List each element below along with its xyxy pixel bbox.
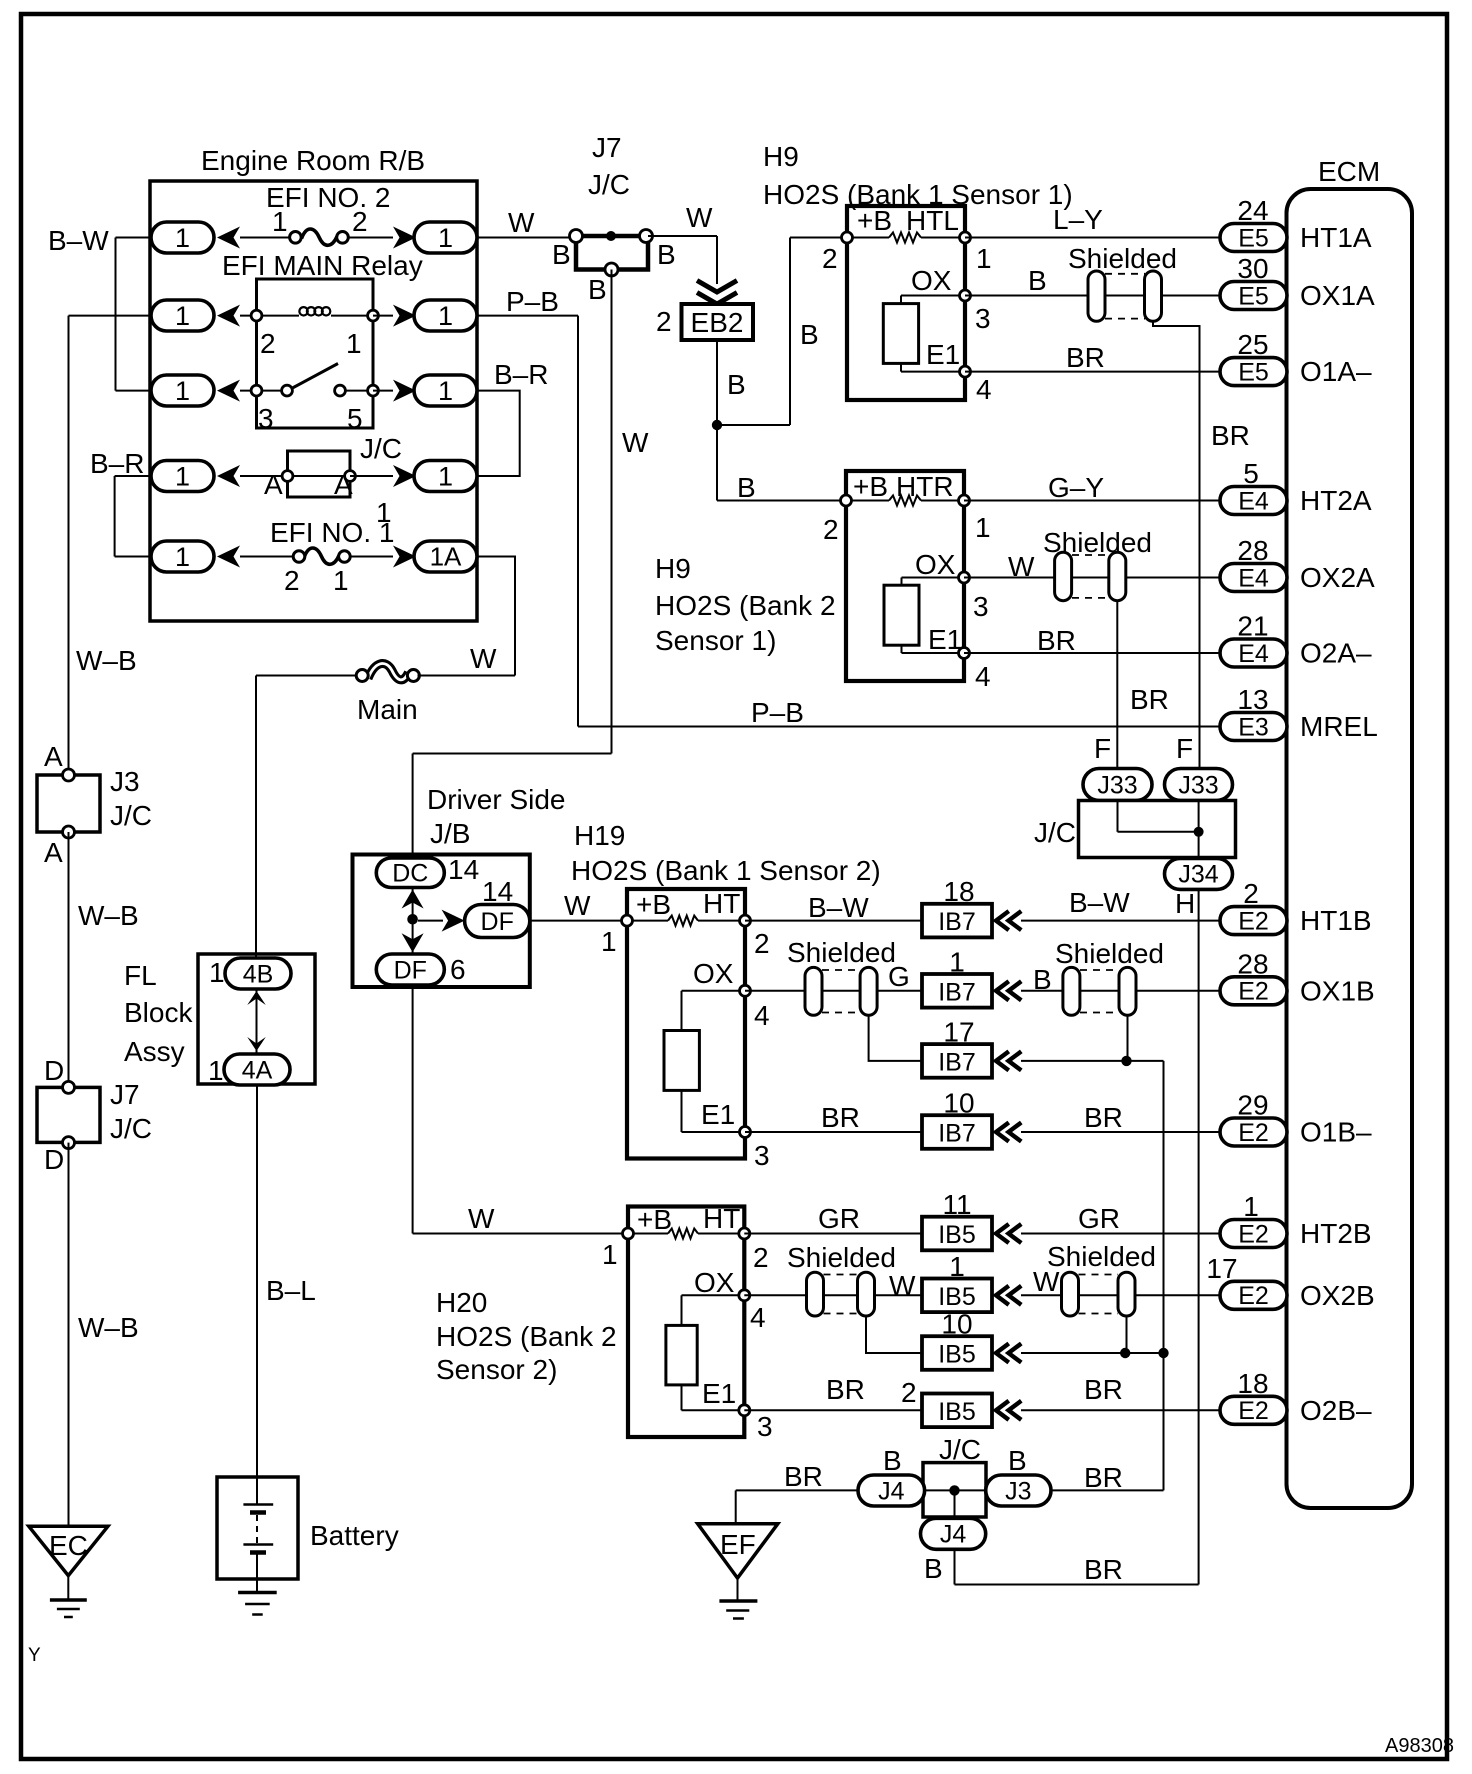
shield dashes OX2B right: [1079, 1274, 1119, 1276]
wire row3 to relay switch: [240, 390, 282, 392]
wire OX internal H20: [682, 1294, 745, 1296]
junction block Driver Side J/B box: [353, 855, 530, 988]
shield dashes H19 left: [822, 969, 860, 971]
svg-text:3: 3: [754, 1140, 770, 1171]
svg-text:18: 18: [1237, 1368, 1268, 1399]
arrow chevrons IB5 row 10: [996, 1345, 1007, 1361]
block FL Block Assy box: [198, 954, 315, 1084]
wire W to H20 pin1: [413, 1233, 628, 1235]
wire OX H20 to IB5: [744, 1294, 922, 1296]
svg-text:OX2B: OX2B: [1300, 1280, 1375, 1311]
svg-text:EFI MAIN Relay: EFI MAIN Relay: [222, 250, 423, 281]
svg-text:J7: J7: [110, 1079, 140, 1110]
arrow into pill row2 right: [393, 305, 416, 327]
heater resistor bank2s1: [889, 496, 921, 506]
svg-text:1: 1: [175, 301, 190, 331]
wire GR IB5 to ECM: [1021, 1233, 1220, 1235]
wire 1A to main link: [477, 557, 515, 676]
svg-text:BR: BR: [1084, 1374, 1123, 1405]
svg-text:4: 4: [750, 1302, 766, 1333]
junction dot J/B: [407, 914, 418, 925]
wire W DF to H19: [530, 920, 627, 922]
wire J33 right through to J34: [1198, 801, 1200, 858]
svg-text:Block: Block: [124, 997, 193, 1028]
wire B to H9 bank1 pin2: [790, 237, 847, 239]
wire row1 to right pill: [347, 237, 393, 239]
svg-text:MREL: MREL: [1300, 711, 1378, 742]
svg-text:OX: OX: [915, 549, 956, 580]
junction dot B net: [712, 420, 722, 430]
svg-text:1: 1: [601, 926, 617, 957]
svg-text:GR: GR: [818, 1203, 860, 1234]
wire inside J33 jc: [1117, 801, 1119, 832]
svg-text:Driver Side: Driver Side: [427, 784, 565, 815]
wire BR O1A to ECM: [965, 371, 1220, 373]
svg-text:10: 10: [943, 1088, 974, 1119]
connector pill E5 O1A– pin 25: [1220, 358, 1287, 386]
arrow into pill row5 right: [393, 546, 416, 568]
fuse EFI NO.2 element: [302, 229, 338, 245]
connector pill 1 row4 left: [151, 461, 214, 492]
connector pill E2 HT1B pin 2: [1220, 907, 1287, 935]
wire IB5 10 to vertical: [1021, 1352, 1164, 1354]
connector pill 1 row1 right: [414, 222, 477, 253]
svg-text:17: 17: [943, 1016, 974, 1047]
svg-text:1: 1: [438, 376, 453, 406]
svg-text:W–B: W–B: [78, 900, 139, 931]
wire row2 right to pill: [373, 315, 393, 317]
ground EF triangle: [698, 1524, 778, 1578]
junction connector J7 J/C box top: [576, 236, 648, 270]
svg-text:W: W: [564, 890, 591, 921]
connector pill J3 right: [986, 1475, 1051, 1506]
wire B-R link row3-row4: [477, 391, 520, 476]
pin 3 H19: [740, 1127, 751, 1138]
wire shield drain bank1s1: [1153, 321, 1200, 768]
svg-text:OX: OX: [911, 265, 952, 296]
wire between 4B 4A: [256, 989, 258, 1055]
svg-text:H19: H19: [574, 820, 625, 851]
arrow down in J/B: [402, 933, 424, 952]
svg-text:F: F: [1176, 733, 1193, 764]
shield capsule bank1s1 left: [1088, 271, 1105, 321]
svg-text:J33: J33: [1097, 771, 1137, 799]
wire row5 fuse segment: [240, 556, 294, 558]
connector EB2 box: [682, 304, 754, 340]
connector pill J4 bottom: [921, 1518, 986, 1549]
J7 top pin B left: [570, 230, 583, 243]
svg-text:1A: 1A: [430, 542, 462, 572]
arrow into pill row1 right: [393, 227, 416, 249]
svg-text:+B: +B: [853, 471, 888, 502]
wire battery feed vertical upper: [255, 676, 257, 959]
svg-text:IB7: IB7: [938, 908, 976, 936]
svg-text:J4: J4: [940, 1521, 967, 1549]
svg-text:Shielded: Shielded: [1068, 243, 1177, 274]
svg-text:O1A–: O1A–: [1300, 356, 1372, 387]
connector IB7 row 17: [922, 1044, 992, 1078]
svg-text:14: 14: [448, 854, 479, 885]
svg-text:1: 1: [175, 542, 190, 572]
connector IB7 row 10: [922, 1115, 992, 1149]
arrow chevrons IB7 row 10: [996, 1124, 1007, 1140]
sensor element H20: [666, 1325, 697, 1385]
pin 1 bank1s1: [960, 232, 971, 243]
battery plate long bottom: [243, 1543, 273, 1545]
battery plate short bottom: [250, 1550, 266, 1555]
wire W row1 to J7 J/C: [477, 237, 576, 239]
relay pin 3: [251, 385, 262, 396]
arrow down in FL block: [247, 1037, 266, 1051]
wire B branch right: [717, 424, 790, 426]
svg-text:1: 1: [949, 946, 965, 977]
arrow chevrons IB7 row 17: [996, 1053, 1007, 1069]
svg-text:Battery: Battery: [310, 1520, 399, 1551]
pin 2 H20: [739, 1228, 750, 1239]
wire IB7 17 to vertical: [1021, 1060, 1164, 1062]
shield capsule OX2B right b: [1118, 1272, 1135, 1316]
wire W-B middle segment: [68, 832, 70, 1087]
svg-text:BR: BR: [784, 1461, 823, 1492]
svg-text:W: W: [470, 643, 497, 674]
svg-text:GR: GR: [1078, 1203, 1120, 1234]
svg-text:10: 10: [941, 1309, 972, 1340]
svg-text:O2A–: O2A–: [1300, 638, 1372, 669]
svg-text:B: B: [588, 274, 607, 305]
wire W from J7 to EB2 corner: [648, 235, 717, 237]
connector pill E5 HT1A pin 24: [1220, 224, 1287, 252]
svg-text:J34: J34: [1178, 861, 1218, 889]
J/C pin A left: [282, 471, 293, 482]
relay pin 2: [251, 310, 262, 321]
shield capsule H20 left a: [807, 1272, 824, 1316]
svg-text:H9: H9: [763, 141, 799, 172]
pin 1 bank2s1: [959, 495, 970, 506]
connector IB5 row 1: [922, 1279, 992, 1313]
wire DF bottom drop: [412, 985, 414, 1234]
junction connector bottom J/C box: [923, 1463, 986, 1517]
battery plate short top: [250, 1510, 266, 1515]
wire P-B from relay: [477, 315, 578, 317]
connector IB5 row 2: [922, 1394, 992, 1428]
module ECM box: [1287, 189, 1413, 1508]
shield dashes OX1B right: [1080, 969, 1119, 971]
svg-text:HO2S (Bank 1 Sensor 2): HO2S (Bank 1 Sensor 2): [571, 855, 881, 886]
heater resistor bank1s1: [889, 233, 921, 243]
svg-text:HTR: HTR: [896, 471, 954, 502]
svg-text:J/C: J/C: [939, 1434, 981, 1465]
svg-text:H9: H9: [655, 553, 691, 584]
shield capsule bank1s1 right: [1145, 271, 1162, 321]
pin 4 H19: [740, 985, 751, 996]
ground EC triangle: [29, 1526, 108, 1575]
svg-text:B: B: [1033, 964, 1052, 995]
pin 1 H20: [623, 1228, 634, 1239]
svg-text:E4: E4: [1238, 564, 1269, 592]
wire B OX1A to ECM: [965, 295, 1220, 297]
svg-text:Sensor 2): Sensor 2): [436, 1354, 557, 1385]
wire W-B row2 stub: [69, 315, 152, 317]
svg-text:IB7: IB7: [938, 1120, 976, 1148]
svg-text:+B: +B: [636, 889, 671, 920]
wire main row left: [256, 675, 356, 677]
connector pill E5 OX1A pin 30: [1220, 282, 1287, 310]
pin 2 bank2s1: [841, 495, 852, 506]
svg-text:2: 2: [1243, 878, 1259, 909]
connector pill J33 left: [1083, 769, 1152, 801]
svg-text:1: 1: [272, 206, 288, 237]
connector pill 1A: [414, 541, 477, 572]
junction connector J7 J/C box left: [37, 1087, 100, 1142]
wire vertical IB7-17 down to J3: [1163, 1061, 1165, 1491]
svg-text:BR: BR: [1084, 1102, 1123, 1133]
svg-text:B: B: [657, 239, 676, 270]
svg-text:E2: E2: [1238, 907, 1269, 935]
svg-text:IB5: IB5: [938, 1221, 976, 1249]
battery dashed center: [256, 1515, 258, 1543]
svg-text:Engine Room R/B: Engine Room R/B: [201, 145, 425, 176]
svg-text:Assy: Assy: [124, 1036, 185, 1067]
wire shield drain H20 left: [866, 1316, 922, 1353]
svg-text:J/C: J/C: [1034, 817, 1076, 848]
shield capsule bank2s1 left: [1055, 552, 1072, 600]
wire BR J3 to vertical: [1051, 1489, 1164, 1491]
wire W OX2A to ECM: [964, 577, 1220, 579]
svg-text:J3: J3: [1005, 1477, 1031, 1505]
connector pill E3 MREL pin 13: [1220, 713, 1287, 741]
sensor H20 box: [628, 1207, 744, 1438]
connector pill 1 row5 left: [151, 541, 214, 572]
wire B-W H19 to IB7: [745, 920, 922, 922]
shield capsule H19 left a: [805, 967, 822, 1015]
svg-text:25: 25: [1237, 329, 1268, 360]
wire row2 to relay: [240, 315, 257, 317]
wire W-B lower segment: [68, 1143, 70, 1527]
svg-text:ECM: ECM: [1318, 156, 1380, 187]
svg-text:W: W: [622, 427, 649, 458]
svg-text:A: A: [334, 469, 353, 500]
pin 1 H19: [622, 915, 633, 926]
svg-text:E2: E2: [1238, 1282, 1269, 1310]
connector pill E4 OX2A pin 28: [1220, 564, 1287, 592]
connector IB5 row 11: [922, 1217, 992, 1251]
svg-text:14: 14: [482, 876, 513, 907]
svg-text:A98308: A98308: [1385, 1735, 1454, 1757]
wire shield drain OX2B right: [1126, 1316, 1128, 1353]
svg-text:E1: E1: [926, 339, 960, 370]
wire heater row bank2s1: [851, 500, 889, 502]
svg-text:W: W: [1033, 1266, 1060, 1297]
shield dashes bank2s1: [1072, 554, 1108, 556]
arrow into pill row1 left: [217, 227, 240, 249]
svg-text:E2: E2: [1238, 1119, 1269, 1147]
svg-text:O1B–: O1B–: [1300, 1117, 1372, 1148]
connector pill DF right: [465, 905, 530, 938]
svg-text:B–W: B–W: [48, 225, 109, 256]
svg-text:EF: EF: [720, 1529, 756, 1560]
svg-text:3: 3: [973, 591, 989, 622]
svg-text:A: A: [44, 837, 63, 868]
svg-text:W–B: W–B: [78, 1312, 139, 1343]
svg-text:DF: DF: [394, 956, 427, 984]
svg-text:IB7: IB7: [938, 1048, 976, 1076]
svg-text:W: W: [468, 1203, 495, 1234]
wire BR H19 to IB7: [745, 1131, 922, 1133]
svg-text:Shielded: Shielded: [787, 1242, 896, 1273]
arrow into DF right: [442, 910, 465, 932]
arrow into pill row3 left: [217, 380, 240, 402]
connector pill 4B: [225, 958, 291, 989]
svg-text:J7: J7: [592, 132, 622, 163]
svg-text:Sensor 1): Sensor 1): [655, 625, 776, 656]
connector pill J34: [1165, 858, 1233, 889]
connector pill E2 OX2B pin 17: [1220, 1281, 1287, 1309]
sensor H19 box: [627, 889, 745, 1159]
wire W-B vertical long: [68, 316, 70, 775]
sensor element bank2s1: [884, 585, 919, 645]
svg-text:11: 11: [942, 1189, 971, 1220]
svg-text:+B: +B: [637, 1204, 672, 1235]
pin 4 H20: [739, 1290, 750, 1301]
svg-text:BR: BR: [1066, 342, 1105, 373]
sensor element H19: [664, 1031, 699, 1091]
fuse EFI NO.1 element: [304, 548, 339, 564]
wire row4 left stub: [115, 475, 151, 477]
svg-text:4: 4: [754, 1000, 770, 1031]
svg-text:BR: BR: [1211, 420, 1250, 451]
junction dot IB5 10 vertical: [1158, 1348, 1168, 1358]
relay switch contact right: [335, 385, 346, 396]
wire W down to J/B: [412, 754, 414, 857]
pin 3 bank2s1: [959, 572, 970, 583]
svg-text:HT: HT: [703, 888, 740, 919]
wire W horizontal to driver side: [413, 753, 612, 755]
svg-text:OX1A: OX1A: [1300, 280, 1375, 311]
svg-text:B: B: [1028, 265, 1047, 296]
relay switch wire right: [346, 390, 368, 392]
arrow into pill row4 right: [393, 465, 416, 487]
wire OX H19 to IB7: [745, 990, 922, 992]
svg-text:OX1B: OX1B: [1300, 975, 1375, 1006]
wire L-Y heater to ECM: [965, 237, 1220, 239]
svg-text:W: W: [686, 202, 713, 233]
svg-text:1: 1: [175, 376, 190, 406]
svg-text:BR: BR: [826, 1374, 865, 1405]
svg-text:HTL: HTL: [906, 205, 959, 236]
svg-text:Y: Y: [28, 1645, 41, 1666]
battery plate long top: [243, 1503, 273, 1505]
relay pin 1: [368, 310, 379, 321]
J7 pin D bottom: [63, 1137, 75, 1149]
svg-text:W: W: [1008, 551, 1035, 582]
connector pill E2 O2B– pin 18: [1220, 1396, 1287, 1424]
svg-text:B–R: B–R: [494, 359, 548, 390]
svg-text:HT2B: HT2B: [1300, 1218, 1372, 1249]
shield dashes H20 left: [824, 1274, 858, 1276]
svg-text:30: 30: [1237, 253, 1268, 284]
ground EF stub: [737, 1578, 739, 1601]
wire OX2B IB5 to ECM: [1021, 1294, 1220, 1296]
svg-text:B–R: B–R: [90, 448, 144, 479]
svg-text:FL: FL: [124, 960, 157, 991]
connector pill 1 row1 left: [151, 222, 214, 253]
shield capsule H19 left b: [860, 967, 877, 1015]
connector pill DC: [376, 858, 444, 888]
ground EF bars: [719, 1599, 757, 1603]
connector pill 1 row3 left: [151, 375, 214, 406]
svg-text:E4: E4: [1238, 640, 1269, 668]
svg-text:E1: E1: [702, 1378, 736, 1409]
wire B to H9 bank2 pin2: [717, 500, 846, 502]
wire battery feed vertical lower: [256, 1085, 258, 1504]
svg-text:B: B: [800, 319, 819, 350]
svg-text:4A: 4A: [242, 1056, 273, 1084]
wire heater row H20: [633, 1233, 668, 1235]
connector pill E2 O1B– pin 29: [1220, 1118, 1287, 1146]
wire row4 to J/C: [240, 475, 288, 477]
battery box: [217, 1477, 298, 1579]
sensor H9 bank1 box: [847, 206, 965, 400]
junction connector J/C box engine room: [288, 451, 351, 497]
svg-text:2: 2: [260, 328, 276, 359]
junction connector J3 J/C box: [37, 775, 100, 832]
junction dot J33 jc: [1194, 827, 1204, 837]
heater resistor H20: [668, 1229, 698, 1239]
svg-text:IB5: IB5: [938, 1341, 976, 1369]
svg-text:1: 1: [376, 497, 392, 528]
svg-text:2: 2: [352, 206, 368, 237]
wire shield drain OX1B right: [1127, 1015, 1129, 1061]
wire row5 left stub: [115, 556, 151, 558]
pin 2 bank1s1: [842, 232, 853, 243]
shield capsule OX1B right a: [1063, 967, 1080, 1015]
relay switch contact left: [282, 385, 293, 396]
svg-text:BR: BR: [1037, 625, 1076, 656]
wire OX internal H19: [682, 990, 746, 992]
svg-text:13: 13: [1237, 684, 1268, 715]
svg-text:HO2S (Bank 2: HO2S (Bank 2: [436, 1321, 617, 1352]
relay switch blade: [292, 364, 339, 389]
svg-text:DC: DC: [392, 860, 428, 888]
svg-text:17: 17: [1206, 1253, 1237, 1284]
wire row1 fuse segment: [240, 237, 291, 239]
wire OX1B IB7 to ECM: [1021, 990, 1220, 992]
connector pill 1 row2 left: [151, 300, 214, 331]
wire J34 long vertical: [1198, 889, 1200, 1584]
svg-text:1: 1: [1243, 1191, 1259, 1222]
svg-text:1: 1: [175, 461, 190, 491]
svg-text:OX2A: OX2A: [1300, 562, 1375, 593]
svg-text:28: 28: [1237, 535, 1268, 566]
svg-text:BR: BR: [821, 1102, 860, 1133]
svg-text:6: 6: [450, 954, 466, 985]
wire heater row H19: [632, 920, 668, 922]
svg-text:OX: OX: [694, 1267, 735, 1298]
connector pill J33 right: [1165, 769, 1233, 801]
svg-text:O2B–: O2B–: [1300, 1395, 1372, 1426]
connector pill 1 row4 right: [414, 461, 477, 492]
svg-text:E3: E3: [1238, 713, 1269, 741]
junction connector J33 J/C box: [1079, 801, 1236, 858]
relay coil L1: [299, 307, 307, 315]
arrow chevrons IB5 row 1: [996, 1287, 1007, 1303]
svg-text:J/C: J/C: [110, 1113, 152, 1144]
heater resistor H19: [668, 916, 698, 926]
svg-text:EB2: EB2: [691, 307, 744, 338]
wire row4 right to pill: [350, 475, 393, 477]
svg-text:Shielded: Shielded: [787, 937, 896, 968]
svg-text:1: 1: [949, 1251, 965, 1282]
